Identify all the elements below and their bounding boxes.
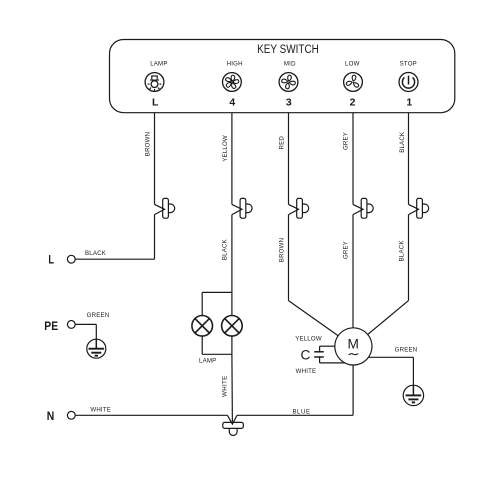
- svg-text:N: N: [47, 409, 55, 423]
- svg-text:RED: RED: [278, 136, 285, 150]
- svg-text:L: L: [152, 97, 159, 109]
- svg-text:2: 2: [350, 97, 356, 109]
- svg-text:WHITE: WHITE: [221, 376, 228, 397]
- svg-text:HIGH: HIGH: [227, 60, 243, 67]
- svg-text:LAMP: LAMP: [199, 357, 216, 364]
- svg-text:BLUE: BLUE: [292, 408, 310, 415]
- svg-text:1: 1: [406, 97, 412, 109]
- svg-text:KEY SWITCH: KEY SWITCH: [257, 42, 319, 56]
- svg-text:GREEN: GREEN: [395, 347, 418, 354]
- svg-text:4: 4: [229, 97, 235, 109]
- svg-text:BROWN: BROWN: [278, 238, 285, 262]
- svg-text:WHITE: WHITE: [296, 368, 317, 375]
- svg-text:GREY: GREY: [343, 132, 350, 150]
- svg-text:BROWN: BROWN: [144, 132, 151, 156]
- svg-text:YELLOW: YELLOW: [222, 135, 229, 162]
- svg-text:YELLOW: YELLOW: [295, 336, 322, 343]
- svg-text:BLACK: BLACK: [85, 250, 106, 257]
- svg-text:L: L: [48, 253, 54, 267]
- svg-text:C: C: [301, 347, 311, 362]
- svg-text:LAMP: LAMP: [150, 60, 167, 67]
- svg-text:BLACK: BLACK: [222, 239, 229, 260]
- svg-text:BLACK: BLACK: [399, 132, 406, 153]
- svg-text:LOW: LOW: [345, 60, 360, 67]
- svg-text:3: 3: [286, 97, 292, 109]
- svg-text:M: M: [347, 337, 358, 352]
- svg-text:PE: PE: [44, 319, 58, 333]
- svg-text:GREEN: GREEN: [87, 312, 110, 319]
- svg-text:STOP: STOP: [400, 60, 417, 67]
- svg-text:MID: MID: [284, 60, 296, 67]
- svg-text:WHITE: WHITE: [90, 406, 111, 413]
- svg-text:GREY: GREY: [343, 241, 350, 259]
- svg-text:BLACK: BLACK: [399, 240, 406, 261]
